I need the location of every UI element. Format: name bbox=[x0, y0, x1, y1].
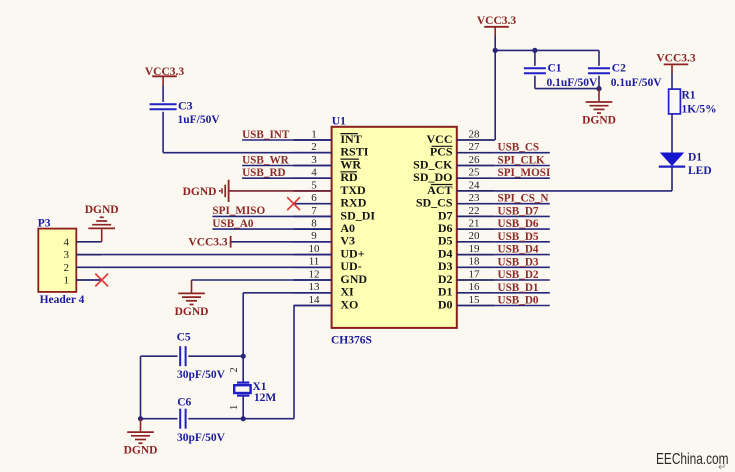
pin 28 VCC (right) bbox=[457, 139, 495, 141]
pin 23 SD_CS (right) bbox=[457, 203, 495, 205]
svg-text:10: 10 bbox=[309, 243, 321, 255]
wire pin12 GND to ground bbox=[192, 279, 332, 281]
svg-text:0.1uF/50V: 0.1uF/50V bbox=[611, 77, 662, 89]
wire VCC rail to C1/C2 bbox=[495, 49, 599, 51]
svg-text:USB_WR: USB_WR bbox=[242, 154, 290, 166]
pin 4 RD (left) bbox=[294, 177, 332, 179]
wire net SPI_CS_N (pin 23) bbox=[495, 203, 550, 205]
junction node C2 bottom / ground bbox=[596, 86, 601, 91]
svg-text:23: 23 bbox=[469, 192, 481, 204]
wire net USB_D1 (pin 16) bbox=[495, 292, 550, 294]
svg-text:2: 2 bbox=[64, 262, 70, 274]
svg-text:27: 27 bbox=[469, 141, 481, 153]
svg-text:↵: ↵ bbox=[718, 462, 726, 472]
svg-text:P3: P3 bbox=[38, 218, 51, 230]
wire VCC3.3 to C3 bbox=[162, 86, 164, 102]
wire DGND to pin5 bbox=[229, 190, 332, 192]
header pin 2 bbox=[76, 266, 101, 268]
svg-text:VCC3.3: VCC3.3 bbox=[656, 53, 696, 65]
wire C6 left lead bbox=[141, 418, 178, 420]
ground DGND (header pin 4) bbox=[101, 229, 103, 242]
svg-text:19: 19 bbox=[469, 243, 481, 255]
svg-text:12: 12 bbox=[309, 268, 320, 280]
wire C6 right lead bbox=[188, 418, 243, 420]
svg-text:R1: R1 bbox=[682, 90, 696, 102]
svg-text:SPI_CLK: SPI_CLK bbox=[498, 155, 546, 167]
svg-text:26: 26 bbox=[469, 154, 481, 166]
pin 1 INT (left) bbox=[294, 139, 332, 141]
header pin 3 bbox=[76, 254, 101, 256]
svg-text:U1: U1 bbox=[332, 116, 346, 128]
svg-text:20: 20 bbox=[469, 230, 481, 242]
svg-text:USB_INT: USB_INT bbox=[242, 129, 290, 141]
ground DGND (C6) bbox=[140, 419, 142, 432]
wire left vertical C5 to C6 bbox=[140, 356, 142, 419]
wire header pin3 to U1 pin10 bbox=[102, 254, 332, 256]
svg-text:C3: C3 bbox=[178, 99, 193, 113]
svg-text:15: 15 bbox=[469, 294, 481, 306]
svg-text:USB_D7: USB_D7 bbox=[498, 205, 539, 217]
wire C1-C2 bottom rail bbox=[535, 88, 599, 90]
pin 19 D4 (right) bbox=[457, 254, 495, 256]
svg-text:30pF/50V: 30pF/50V bbox=[177, 369, 226, 381]
svg-text:1uF/50V: 1uF/50V bbox=[178, 114, 221, 126]
svg-text:28: 28 bbox=[469, 128, 481, 140]
wire C1 bottom lead bbox=[534, 76, 536, 89]
wire pin24 ACT to LED D1 bbox=[495, 190, 672, 192]
svg-text:3: 3 bbox=[311, 154, 317, 166]
capacitor C1 bbox=[524, 67, 546, 69]
svg-text:18: 18 bbox=[469, 256, 481, 268]
ground DGND (C1/C2) bbox=[598, 89, 600, 102]
wire net USB_D3 (pin 18) bbox=[495, 266, 550, 268]
svg-text:VCC3.3: VCC3.3 bbox=[188, 237, 228, 249]
pin 8 A0 (left) bbox=[294, 228, 332, 230]
pin 5 TXD (left) bbox=[294, 190, 332, 192]
wire net USB_RD (pin 4) bbox=[242, 177, 332, 179]
svg-text:13: 13 bbox=[309, 281, 321, 293]
wire C2 top lead bbox=[598, 50, 600, 65]
IC U1 CH376S body bbox=[332, 127, 457, 328]
wire header pin2 to U1 pin11 bbox=[102, 266, 332, 268]
svg-text:8: 8 bbox=[311, 218, 317, 230]
svg-text:C5: C5 bbox=[177, 332, 191, 344]
svg-text:Header 4: Header 4 bbox=[40, 294, 85, 306]
svg-text:16: 16 bbox=[469, 281, 481, 293]
wire VCC3.3 to pin9 bbox=[231, 241, 332, 243]
svg-text:D0: D0 bbox=[438, 297, 453, 311]
svg-text:9: 9 bbox=[311, 230, 317, 242]
wire net SPI_MISO (pin 7) bbox=[212, 215, 331, 217]
svg-text:SPI_MISO: SPI_MISO bbox=[212, 205, 265, 217]
svg-text:1K/5%: 1K/5% bbox=[682, 104, 717, 116]
pin 10 UD+ (left) bbox=[294, 254, 332, 256]
svg-text:1: 1 bbox=[229, 405, 240, 410]
pin 22 D7 (right) bbox=[457, 215, 495, 217]
svg-text:DGND: DGND bbox=[85, 204, 119, 216]
pin 2 RSTI (left) bbox=[294, 152, 332, 154]
wire pin13 XI down to crystal bbox=[243, 292, 331, 294]
no-connect X pin 6 RXD bbox=[287, 197, 300, 210]
pin 13 XI (left) bbox=[294, 292, 332, 294]
svg-text:LED: LED bbox=[688, 165, 712, 177]
svg-text:C1: C1 bbox=[548, 63, 562, 75]
svg-text:25: 25 bbox=[469, 167, 481, 179]
capacitor C3 bbox=[150, 103, 177, 105]
svg-text:1: 1 bbox=[64, 275, 70, 287]
pin 15 D0 (right) bbox=[457, 305, 495, 307]
pin 17 D2 (right) bbox=[457, 279, 495, 281]
wire pin14 XO down bbox=[294, 305, 332, 307]
junction node C1 top bbox=[532, 48, 537, 53]
svg-text:C6: C6 bbox=[177, 397, 191, 409]
wire net USB_CS (pin 27) bbox=[495, 152, 550, 154]
wire C2 bottom lead bbox=[598, 76, 600, 89]
pin 18 D3 (right) bbox=[457, 266, 495, 268]
pin 6 RXD (left) bbox=[294, 203, 332, 205]
wire C5 right lead bbox=[188, 355, 243, 357]
ground DGND (pin 12) bbox=[191, 280, 193, 293]
junction node C6 left bbox=[138, 416, 143, 421]
pin 11 UD- (left) bbox=[294, 266, 332, 268]
capacitor C2 bbox=[588, 67, 610, 69]
svg-text:2: 2 bbox=[229, 367, 240, 372]
svg-text:4: 4 bbox=[64, 236, 70, 248]
svg-text:6: 6 bbox=[311, 192, 317, 204]
pin 12 GND (left) bbox=[294, 279, 332, 281]
svg-text:DGND: DGND bbox=[175, 306, 209, 318]
wire net USB_A0 (pin 8) bbox=[212, 228, 331, 230]
svg-text:C2: C2 bbox=[612, 63, 626, 75]
wire bottom rail to XO vertical bbox=[243, 418, 294, 420]
wire net SPI_MOSI (pin 25) bbox=[495, 177, 550, 179]
pin 20 D5 (right) bbox=[457, 241, 495, 243]
svg-text:3: 3 bbox=[64, 249, 70, 261]
svg-text:USB_D3: USB_D3 bbox=[498, 256, 539, 268]
svg-text:D1: D1 bbox=[688, 152, 702, 164]
svg-text:2: 2 bbox=[311, 141, 317, 153]
svg-text:SPI_MOSI: SPI_MOSI bbox=[498, 167, 551, 179]
wire VCC3.3 down to pin28 bbox=[494, 36, 496, 140]
svg-text:USB_RD: USB_RD bbox=[242, 167, 286, 179]
junction node C5/XI bbox=[241, 354, 246, 359]
svg-text:USB_D6: USB_D6 bbox=[498, 218, 539, 230]
wire net USB_D4 (pin 19) bbox=[495, 254, 550, 256]
junction node at VCC rail bbox=[493, 48, 498, 53]
pin 25 SD_DO (right) bbox=[457, 177, 495, 179]
svg-text:DGND: DGND bbox=[124, 445, 158, 457]
wire R1 to D1 bbox=[671, 114, 673, 153]
header pin 1 bbox=[76, 279, 101, 281]
capacitor C5 bbox=[179, 346, 181, 366]
svg-text:11: 11 bbox=[309, 256, 320, 268]
resistor R1 bbox=[669, 89, 681, 114]
wire net USB_D0 (pin 15) bbox=[495, 305, 550, 307]
wire net USB_D2 (pin 17) bbox=[495, 279, 550, 281]
svg-text:USB_D4: USB_D4 bbox=[498, 244, 539, 256]
svg-text:USB_CS: USB_CS bbox=[498, 142, 540, 154]
svg-text:XO: XO bbox=[340, 297, 358, 311]
wire C5 left lead bbox=[141, 355, 178, 357]
svg-text:7: 7 bbox=[311, 205, 317, 217]
wire C1 top lead bbox=[534, 50, 536, 65]
svg-text:14: 14 bbox=[309, 294, 321, 306]
svg-text:0.1uF/50V: 0.1uF/50V bbox=[547, 77, 598, 89]
pin 7 SD_DI (left) bbox=[294, 215, 332, 217]
no-connect X header pin 1 bbox=[95, 274, 108, 287]
junction node crystal bottom bbox=[241, 416, 246, 421]
svg-text:USB_D0: USB_D0 bbox=[498, 295, 539, 307]
pin 3 WR (left) bbox=[294, 165, 332, 167]
connector P3 Header 4 bbox=[38, 229, 76, 292]
wire net USB_INT (pin 1) bbox=[242, 139, 332, 141]
wire C3 to pin2 RSTI bbox=[162, 112, 164, 153]
wire crystal bottom lead bbox=[242, 396, 244, 419]
pin 14 XO (left) bbox=[294, 305, 332, 307]
svg-text:SPI_CS_N: SPI_CS_N bbox=[498, 193, 549, 205]
wire net SPI_CLK (pin 26) bbox=[495, 165, 550, 167]
svg-text:USB_D2: USB_D2 bbox=[498, 269, 539, 281]
pin 26 SD_CK (right) bbox=[457, 165, 495, 167]
diode D1 LED bbox=[660, 153, 684, 167]
svg-text:DGND: DGND bbox=[183, 186, 217, 198]
svg-text:12M: 12M bbox=[254, 392, 277, 404]
svg-text:CH376S: CH376S bbox=[331, 335, 372, 347]
pin 24 ACT (right) bbox=[457, 190, 495, 192]
svg-text:DGND: DGND bbox=[582, 115, 616, 127]
pin 16 D1 (right) bbox=[457, 292, 495, 294]
svg-text:17: 17 bbox=[469, 268, 481, 280]
wire net USB_D5 (pin 20) bbox=[495, 241, 550, 243]
svg-text:24: 24 bbox=[469, 179, 481, 191]
svg-text:5: 5 bbox=[311, 179, 317, 191]
capacitor C6 bbox=[179, 409, 181, 429]
svg-text:USB_D1: USB_D1 bbox=[498, 282, 539, 294]
svg-text:22: 22 bbox=[469, 205, 480, 217]
svg-text:VCC3.3: VCC3.3 bbox=[477, 15, 517, 27]
crystal X1 bbox=[237, 382, 249, 384]
wire net USB_D6 (pin 21) bbox=[495, 228, 550, 230]
svg-text:4: 4 bbox=[311, 167, 317, 179]
svg-text:1: 1 bbox=[311, 128, 317, 140]
wire VCC3.3 to R1 bbox=[671, 73, 673, 89]
pin 9 V3 (left) bbox=[294, 241, 332, 243]
svg-text:30pF/50V: 30pF/50V bbox=[177, 432, 226, 444]
pin 21 D6 (right) bbox=[457, 228, 495, 230]
svg-text:21: 21 bbox=[469, 218, 480, 230]
wire net USB_D7 (pin 22) bbox=[495, 215, 550, 217]
svg-text:USB_D5: USB_D5 bbox=[498, 231, 539, 243]
svg-text:USB_A0: USB_A0 bbox=[212, 218, 253, 230]
header pin 4 bbox=[76, 241, 101, 243]
wire net USB_WR (pin 3) bbox=[242, 165, 332, 167]
pin 27 PCS (right) bbox=[457, 152, 495, 154]
